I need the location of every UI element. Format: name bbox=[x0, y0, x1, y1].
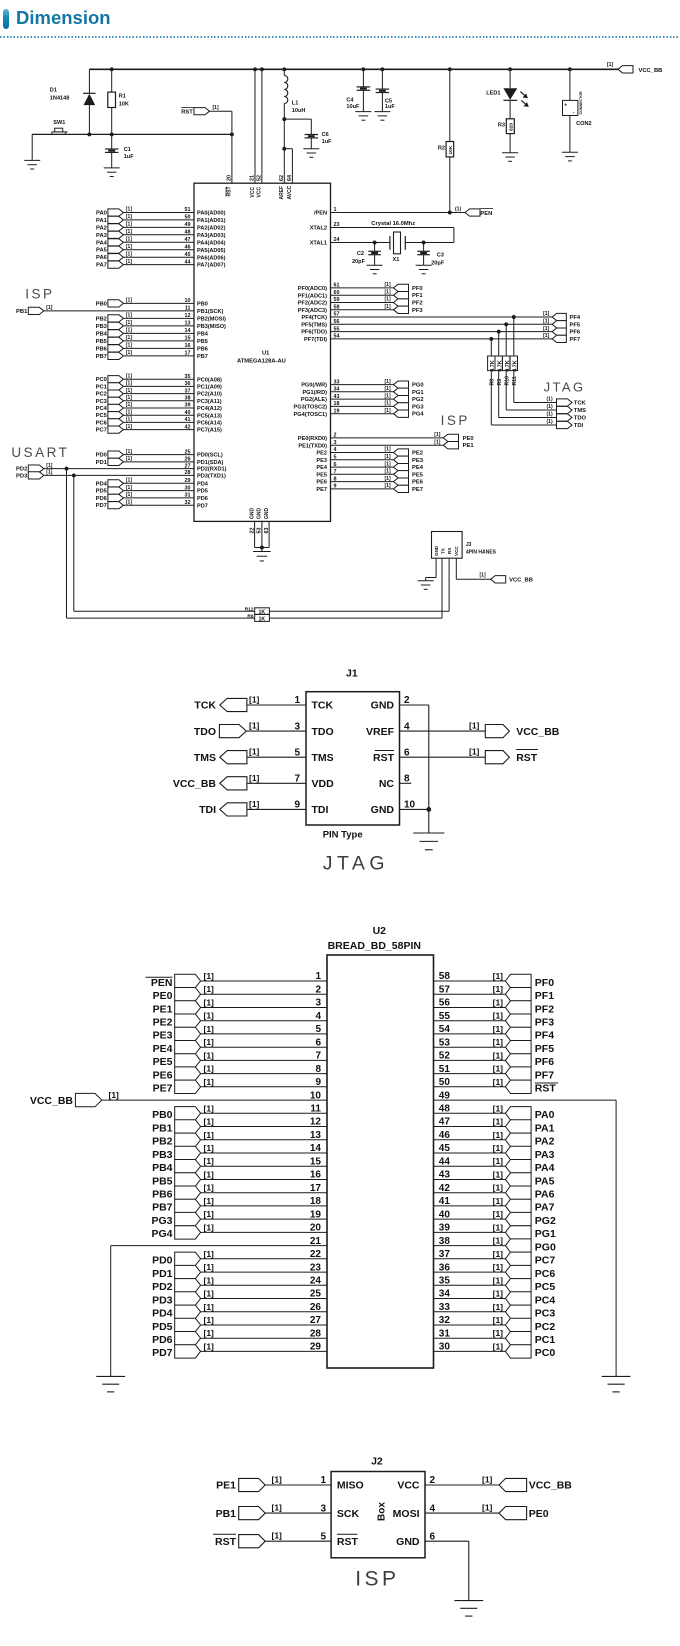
svg-text:PC6(A14): PC6(A14) bbox=[197, 421, 222, 427]
pin 39 PC4 with net flag bbox=[96, 402, 222, 412]
svg-text:PD4: PD4 bbox=[96, 481, 108, 487]
svg-text:VCC_BB: VCC_BB bbox=[509, 578, 533, 584]
ground (below J2) bbox=[454, 1601, 483, 1616]
junction D1-reset bbox=[87, 132, 91, 136]
svg-text:61: 61 bbox=[334, 283, 340, 289]
pin 43 PG2 with net flag bbox=[301, 393, 424, 403]
ground (below C2) bbox=[367, 265, 383, 274]
label ISP (right) bbox=[441, 413, 470, 428]
svg-text:USART: USART bbox=[11, 445, 69, 460]
svg-text:[1]: [1] bbox=[126, 381, 132, 387]
U2 pin 27 PD5 with net flag bbox=[152, 1315, 327, 1333]
svg-text:Box: Box bbox=[377, 1502, 388, 1521]
svg-text:PA4: PA4 bbox=[535, 1162, 555, 1174]
svg-text:PF1(ADC1): PF1(ADC1) bbox=[298, 293, 327, 299]
svg-text:PF6: PF6 bbox=[535, 1056, 554, 1068]
svg-text:[1]: [1] bbox=[204, 1341, 215, 1351]
svg-text:[1]: [1] bbox=[493, 1315, 504, 1325]
pin 54 PF7 with net flag bbox=[304, 333, 580, 343]
svg-text:PE3: PE3 bbox=[153, 1030, 173, 1042]
svg-text:AVCC: AVCC bbox=[287, 185, 293, 199]
svg-text:PF4(TCK): PF4(TCK) bbox=[302, 315, 328, 321]
U2 pin 18 PB7 with net flag bbox=[152, 1196, 327, 1214]
svg-text:TMS: TMS bbox=[574, 408, 586, 414]
svg-text:R6: R6 bbox=[247, 613, 253, 619]
svg-text:PD1(SDA): PD1(SDA) bbox=[197, 460, 224, 466]
svg-text:RST: RST bbox=[373, 752, 395, 764]
svg-text:PB0: PB0 bbox=[152, 1109, 173, 1121]
svg-text:PB3: PB3 bbox=[96, 324, 108, 330]
svg-text:59: 59 bbox=[334, 297, 340, 303]
svg-text:CONNECTOR: CONNECTOR bbox=[579, 91, 583, 114]
svg-text:1: 1 bbox=[320, 1475, 326, 1486]
svg-text:[1]: [1] bbox=[493, 1050, 504, 1060]
junction C3 tap bbox=[422, 241, 426, 245]
wire D1 branch bbox=[88, 69, 90, 134]
svg-text:30: 30 bbox=[185, 485, 191, 491]
svg-text:PC5(A13): PC5(A13) bbox=[197, 413, 222, 419]
pin 49 PA2 with net flag bbox=[96, 222, 226, 232]
pin 7 PE5 with net flag bbox=[316, 469, 423, 479]
connector J3 4PIN HANES bbox=[432, 532, 497, 559]
svg-text:PA3(AD03): PA3(AD03) bbox=[197, 233, 226, 239]
svg-text:49: 49 bbox=[439, 1090, 451, 1101]
svg-text:MOSI: MOSI bbox=[393, 1508, 420, 1520]
svg-text:PG3(TOSC2): PG3(TOSC2) bbox=[294, 405, 328, 411]
svg-text:32: 32 bbox=[185, 500, 191, 506]
svg-text:41: 41 bbox=[185, 417, 191, 423]
capacitor C2 20pF bbox=[352, 251, 381, 265]
svg-text:BREAD_BD_58PIN: BREAD_BD_58PIN bbox=[328, 940, 421, 952]
U2 pin 32 PC2 with net flag bbox=[434, 1315, 556, 1333]
svg-text:PA0(AD00): PA0(AD00) bbox=[197, 211, 226, 217]
U2 pin 8 PE6 with net flag bbox=[153, 1064, 327, 1082]
svg-text:[1]: [1] bbox=[126, 373, 132, 379]
svg-text:1uF: 1uF bbox=[385, 104, 396, 110]
svg-text:18: 18 bbox=[334, 401, 340, 407]
svg-text:PB4: PB4 bbox=[152, 1162, 173, 1174]
svg-text:PB6: PB6 bbox=[152, 1189, 173, 1201]
svg-text:[1]: [1] bbox=[493, 1302, 504, 1312]
wire R12 to J3 RX bbox=[269, 558, 449, 611]
IC U2 BREAD_BD_58PIN body bbox=[327, 925, 434, 1368]
junction PF5 pull-up tap bbox=[504, 322, 508, 326]
svg-text:[1]: [1] bbox=[493, 1037, 504, 1047]
svg-text:[1]: [1] bbox=[493, 1143, 504, 1153]
svg-text:[1]: [1] bbox=[126, 298, 132, 304]
svg-text:PE6: PE6 bbox=[316, 480, 327, 486]
svg-text:[1]: [1] bbox=[126, 335, 132, 341]
U2 pin 50 RST with net flag bbox=[434, 1077, 559, 1095]
svg-text:JTAG: JTAG bbox=[544, 380, 586, 395]
pin 32 PD7 with net flag bbox=[96, 499, 208, 509]
wire R10 bottom to JTAG flag bbox=[506, 371, 557, 410]
pin 59 PF2 with net flag bbox=[298, 297, 423, 307]
svg-text:PB0: PB0 bbox=[96, 301, 107, 307]
pin 8 PE6 with net flag bbox=[316, 476, 423, 486]
U2 pin 45 PA3 with net flag bbox=[434, 1143, 555, 1161]
svg-text:58: 58 bbox=[334, 305, 340, 311]
pin 27 PD2 with net flag bbox=[16, 463, 227, 473]
svg-text:43: 43 bbox=[334, 394, 340, 400]
capacitor C4 10uF bbox=[346, 87, 370, 110]
svg-text:[1]: [1] bbox=[46, 470, 52, 476]
svg-text:3: 3 bbox=[334, 440, 337, 446]
svg-text:[1]: [1] bbox=[126, 424, 132, 430]
svg-text:R2: R2 bbox=[438, 146, 445, 152]
U2 pin 54 PF4 with net flag bbox=[434, 1024, 555, 1042]
svg-text:[1]: [1] bbox=[204, 1315, 215, 1325]
svg-text:[1]: [1] bbox=[204, 1249, 215, 1259]
svg-text:XTAL1: XTAL1 bbox=[310, 241, 327, 247]
svg-text:TMS: TMS bbox=[312, 752, 334, 764]
svg-text:PA6: PA6 bbox=[96, 255, 108, 261]
resistor R1 10K bbox=[108, 92, 129, 107]
ground (U2 left) bbox=[96, 1376, 125, 1391]
svg-text:R11: R11 bbox=[512, 376, 518, 385]
pin 14 PB4 with net flag bbox=[96, 328, 209, 338]
resistor R6 1K bbox=[247, 613, 269, 622]
svg-text:PD6: PD6 bbox=[152, 1334, 173, 1346]
ground (below C3) bbox=[416, 265, 432, 274]
svg-text:PB1: PB1 bbox=[152, 1122, 173, 1134]
pin 41 PC6 with net flag bbox=[96, 417, 222, 427]
svg-text:4PIN HANES: 4PIN HANES bbox=[466, 550, 497, 556]
svg-text:PE5: PE5 bbox=[412, 472, 424, 478]
junction AREF-C6 node bbox=[282, 117, 286, 121]
svg-text:PB5: PB5 bbox=[96, 339, 108, 345]
svg-text:20: 20 bbox=[310, 1223, 322, 1234]
pin 9 TDI with net flag TDI bbox=[199, 799, 328, 816]
svg-text:D1: D1 bbox=[50, 88, 57, 94]
svg-text:[1]: [1] bbox=[126, 350, 132, 356]
svg-text:57: 57 bbox=[439, 984, 451, 995]
svg-text:VCC_BB: VCC_BB bbox=[529, 1480, 573, 1492]
svg-text:PC5: PC5 bbox=[535, 1281, 556, 1293]
J2 pin 1 MISO with net flag PE1 bbox=[216, 1475, 364, 1492]
resistor R12 1K bbox=[245, 606, 270, 615]
svg-text:PE1(TXD0): PE1(TXD0) bbox=[298, 443, 327, 449]
svg-text:11: 11 bbox=[185, 306, 191, 312]
svg-text:6: 6 bbox=[334, 462, 337, 468]
svg-text:PD1: PD1 bbox=[96, 460, 108, 466]
svg-text:PG1(/RD): PG1(/RD) bbox=[302, 390, 327, 396]
svg-text:[1]: [1] bbox=[493, 1275, 504, 1285]
svg-text:19: 19 bbox=[334, 408, 340, 414]
pin 45 PA6 with net flag bbox=[96, 251, 226, 261]
pin 18 PG3 with net flag bbox=[294, 401, 425, 411]
svg-text:PA7(AD07): PA7(AD07) bbox=[197, 263, 226, 269]
svg-text:[1]: [1] bbox=[493, 1209, 504, 1219]
svg-text:PD3: PD3 bbox=[16, 473, 28, 479]
svg-text:TDO: TDO bbox=[312, 726, 334, 738]
svg-text:PF1: PF1 bbox=[535, 990, 554, 1002]
U2 pin 36 PC6 with net flag bbox=[434, 1262, 556, 1280]
svg-text:PE2: PE2 bbox=[412, 451, 423, 457]
svg-text:PB2: PB2 bbox=[96, 316, 107, 322]
pin 20 RST (top) bbox=[226, 175, 233, 197]
svg-text:PA5: PA5 bbox=[535, 1175, 555, 1187]
svg-text:PA2: PA2 bbox=[96, 225, 107, 231]
svg-text:[1]: [1] bbox=[272, 1531, 283, 1541]
svg-text:PG3: PG3 bbox=[151, 1215, 172, 1227]
svg-text:55: 55 bbox=[334, 326, 340, 332]
svg-text:53: 53 bbox=[257, 528, 263, 534]
svg-text:PE6: PE6 bbox=[153, 1069, 173, 1081]
pin 25 PD0 with net flag bbox=[96, 449, 223, 459]
svg-text:GND: GND bbox=[371, 700, 395, 712]
svg-text:L1: L1 bbox=[292, 101, 299, 107]
wire C1 branch bbox=[111, 134, 113, 168]
svg-text:32: 32 bbox=[439, 1315, 451, 1326]
svg-text:[1]: [1] bbox=[385, 461, 391, 467]
svg-text:PC7: PC7 bbox=[535, 1255, 556, 1267]
pin 62 AREF (top) bbox=[279, 175, 285, 200]
svg-text:[1]: [1] bbox=[126, 214, 132, 220]
svg-text:PA4: PA4 bbox=[96, 240, 108, 246]
junction rail-R1 bbox=[110, 67, 114, 71]
svg-text:[1]: [1] bbox=[493, 984, 504, 994]
svg-text:[1]: [1] bbox=[126, 229, 132, 235]
svg-text:[1]: [1] bbox=[204, 1156, 215, 1166]
IC U1 ATMEGA128A-AU body bbox=[194, 183, 331, 521]
wire L1 to AREF node bbox=[283, 104, 285, 184]
svg-text:CON2: CON2 bbox=[576, 121, 592, 127]
U2 pin 28 PD6 with net flag bbox=[152, 1328, 327, 1346]
svg-text:PD2(RXD1): PD2(RXD1) bbox=[197, 467, 227, 473]
svg-text:[1]: [1] bbox=[493, 1328, 504, 1338]
wire R11 top bbox=[513, 317, 515, 356]
svg-text:PG1: PG1 bbox=[535, 1228, 556, 1240]
svg-text:10: 10 bbox=[185, 298, 191, 304]
svg-text:45: 45 bbox=[185, 252, 191, 258]
svg-text:PF7(TDI): PF7(TDI) bbox=[304, 337, 327, 343]
svg-text:56: 56 bbox=[334, 319, 340, 325]
svg-text:[1]: [1] bbox=[385, 447, 391, 453]
svg-text:PF5: PF5 bbox=[535, 1043, 554, 1055]
svg-text:PE4: PE4 bbox=[153, 1043, 173, 1055]
resistor R8 4.7K bbox=[488, 356, 496, 386]
pin 48 PA3 with net flag bbox=[96, 229, 226, 239]
svg-text:PD3: PD3 bbox=[152, 1294, 173, 1306]
svg-text:51: 51 bbox=[185, 207, 191, 213]
wire J3 GND to ground bbox=[426, 558, 436, 581]
svg-text:52: 52 bbox=[439, 1051, 451, 1062]
svg-text:[1]: [1] bbox=[249, 799, 260, 809]
svg-text:-: - bbox=[573, 110, 575, 116]
svg-text:53: 53 bbox=[439, 1037, 451, 1048]
svg-text:PE1: PE1 bbox=[216, 1480, 236, 1492]
U2 pin 58 PF0 with net flag bbox=[434, 971, 555, 989]
svg-text:40: 40 bbox=[185, 410, 191, 416]
svg-text:20: 20 bbox=[227, 175, 233, 181]
pin 16 PB6 with net flag bbox=[96, 343, 208, 353]
svg-text:55: 55 bbox=[439, 1011, 451, 1022]
svg-text:PC5: PC5 bbox=[96, 413, 108, 419]
label ISP (section title) bbox=[355, 1568, 399, 1591]
wire LED1 branch bbox=[508, 67, 512, 118]
svg-text:23: 23 bbox=[310, 1262, 322, 1273]
svg-text:45: 45 bbox=[439, 1143, 451, 1154]
pin 29 PD4 with net flag bbox=[96, 478, 209, 488]
resistor R11 4.7K bbox=[510, 356, 518, 386]
svg-text:PG4: PG4 bbox=[412, 412, 424, 418]
svg-text:PF7: PF7 bbox=[535, 1069, 554, 1081]
svg-text:PC1: PC1 bbox=[96, 384, 108, 390]
capacitor C3 20pF bbox=[417, 251, 444, 266]
svg-text:PE0: PE0 bbox=[463, 436, 474, 442]
svg-text:PG3: PG3 bbox=[412, 404, 424, 410]
pin 4 VREF with net flag VCC_BB bbox=[366, 721, 560, 738]
wire C5 branch bbox=[380, 67, 384, 111]
svg-text:PE1: PE1 bbox=[463, 443, 475, 449]
pin 56 PF5 with net flag bbox=[301, 319, 581, 329]
svg-text:28: 28 bbox=[185, 470, 191, 476]
pin 1 /PEN net wire bbox=[314, 207, 465, 216]
svg-text:36: 36 bbox=[185, 381, 191, 387]
U2 pin 2 PE0 with net flag bbox=[153, 984, 327, 1002]
label Box (rotated, inside J2) bbox=[377, 1502, 388, 1521]
pin 38 PC3 with net flag bbox=[96, 395, 222, 405]
wire GND pins join bbox=[255, 546, 270, 552]
svg-text:PD5: PD5 bbox=[197, 489, 208, 495]
U2 pin 57 PF1 with net flag bbox=[434, 984, 555, 1002]
svg-text:[1]: [1] bbox=[385, 476, 391, 482]
svg-text:[1]: [1] bbox=[204, 1289, 215, 1299]
svg-text:PB3(MISO): PB3(MISO) bbox=[197, 324, 226, 330]
pin 6 RST with net flag RST bbox=[373, 747, 538, 764]
svg-text:[1]: [1] bbox=[493, 1289, 504, 1299]
capacitor C5 1uF bbox=[376, 89, 396, 110]
svg-text:43: 43 bbox=[439, 1170, 451, 1181]
pin 22 GND label bbox=[249, 508, 255, 534]
svg-text:[1]: [1] bbox=[204, 998, 215, 1008]
svg-text:PD0(SCL): PD0(SCL) bbox=[197, 453, 223, 459]
pin 55 PF6 with net flag bbox=[301, 326, 581, 336]
svg-text:[1]: [1] bbox=[607, 62, 613, 68]
svg-text:RST: RST bbox=[535, 1083, 557, 1095]
svg-text:[1]: [1] bbox=[385, 483, 391, 489]
svg-text:5: 5 bbox=[334, 455, 337, 461]
svg-text:PF2(ADC2): PF2(ADC2) bbox=[298, 301, 327, 307]
junction PF6 pull-up tap bbox=[497, 330, 501, 334]
svg-text:PC0: PC0 bbox=[535, 1347, 556, 1359]
svg-text:25: 25 bbox=[310, 1289, 322, 1300]
svg-text:PF7: PF7 bbox=[570, 337, 581, 343]
net flag TCK bbox=[547, 397, 587, 407]
svg-text:[1]: [1] bbox=[385, 393, 391, 399]
svg-text:SCK: SCK bbox=[337, 1508, 360, 1520]
svg-text:[1]: [1] bbox=[493, 1117, 504, 1127]
svg-text:R12: R12 bbox=[245, 606, 254, 612]
svg-text:28: 28 bbox=[310, 1328, 322, 1339]
svg-text:J3: J3 bbox=[466, 542, 472, 548]
svg-text:10: 10 bbox=[404, 800, 416, 811]
wire R11 bottom to JTAG flag bbox=[514, 371, 558, 403]
svg-text:PE7: PE7 bbox=[153, 1083, 173, 1095]
svg-text:[1]: [1] bbox=[249, 773, 260, 783]
svg-text:PEN: PEN bbox=[151, 977, 173, 989]
svg-text:6: 6 bbox=[404, 747, 410, 758]
svg-text:[1]: [1] bbox=[126, 207, 132, 213]
crystal X1 bbox=[390, 232, 405, 263]
pin 34 PG1 with net flag bbox=[302, 386, 424, 396]
svg-text:VCC: VCC bbox=[250, 187, 256, 198]
svg-text:25: 25 bbox=[185, 449, 191, 455]
svg-text:16: 16 bbox=[185, 343, 191, 349]
svg-text:XTAL2: XTAL2 bbox=[310, 226, 327, 232]
svg-text:R3: R3 bbox=[498, 123, 505, 129]
U2 pin 46 PA2 with net flag bbox=[434, 1130, 555, 1148]
svg-text:[1]: [1] bbox=[493, 1249, 504, 1259]
svg-text:19: 19 bbox=[310, 1209, 322, 1220]
svg-text:PG1: PG1 bbox=[412, 390, 424, 396]
svg-text:VCC: VCC bbox=[454, 546, 459, 556]
svg-text:2: 2 bbox=[404, 695, 410, 706]
svg-text:VCC_BB: VCC_BB bbox=[639, 68, 663, 74]
svg-text:PD0: PD0 bbox=[152, 1255, 173, 1267]
svg-text:PA1: PA1 bbox=[535, 1122, 555, 1134]
svg-text:54: 54 bbox=[334, 334, 340, 340]
svg-text:RST: RST bbox=[215, 1536, 237, 1548]
pin 5 TMS with net flag TMS bbox=[194, 747, 334, 764]
junction AVCC branch bbox=[282, 147, 286, 151]
svg-text:51: 51 bbox=[439, 1064, 451, 1075]
svg-text:PE0: PE0 bbox=[529, 1508, 549, 1520]
wire pin20 vertical bbox=[231, 134, 233, 183]
label PIN Type bbox=[323, 830, 363, 841]
svg-text:PC2: PC2 bbox=[96, 392, 107, 398]
svg-text:[1]: [1] bbox=[126, 320, 132, 326]
svg-text:R10: R10 bbox=[504, 376, 510, 386]
svg-text:PF3: PF3 bbox=[412, 308, 423, 314]
svg-text:PE1: PE1 bbox=[153, 1003, 173, 1015]
svg-text:RST: RST bbox=[227, 187, 233, 197]
svg-text:C4: C4 bbox=[346, 98, 354, 104]
pin 57 PF4 with net flag bbox=[302, 311, 581, 321]
svg-text:PC6: PC6 bbox=[535, 1268, 556, 1280]
svg-text:PE3: PE3 bbox=[316, 458, 327, 464]
svg-text:PB6: PB6 bbox=[197, 347, 208, 353]
ground (below U1) bbox=[253, 552, 271, 561]
U2 pin 44 PA4 with net flag bbox=[434, 1156, 555, 1174]
U2 pin 40 PG2 with net flag bbox=[434, 1209, 556, 1227]
pin 28 PD3 with net flag bbox=[16, 470, 226, 480]
junction PD2 tap bbox=[65, 467, 69, 471]
U2 pin 16 PB5 with net flag bbox=[152, 1170, 327, 1188]
svg-text:[1]: [1] bbox=[385, 408, 391, 414]
svg-text:[1]: [1] bbox=[46, 305, 52, 311]
svg-text:PF3: PF3 bbox=[535, 1017, 554, 1029]
svg-text:PF5: PF5 bbox=[570, 322, 581, 328]
svg-text:23: 23 bbox=[334, 222, 340, 228]
svg-text:ISP: ISP bbox=[441, 413, 470, 428]
svg-text:4: 4 bbox=[404, 721, 410, 732]
pin 10 GND wire bbox=[371, 800, 429, 817]
LED LED1 bbox=[486, 88, 529, 107]
svg-text:[1]: [1] bbox=[204, 1103, 215, 1113]
pin 58 PF3 with net flag bbox=[298, 304, 424, 314]
svg-text:PD6: PD6 bbox=[197, 496, 208, 502]
svg-text:18: 18 bbox=[310, 1196, 322, 1207]
junction PD3 tap bbox=[72, 473, 76, 477]
svg-text:GND: GND bbox=[249, 508, 255, 520]
inductor L1 10uH bbox=[282, 67, 305, 114]
svg-text:PD5: PD5 bbox=[152, 1321, 173, 1333]
connector CON2 bbox=[563, 91, 592, 127]
U2 pin 7 PE5 with net flag bbox=[153, 1050, 327, 1068]
svg-text:15: 15 bbox=[185, 336, 191, 342]
